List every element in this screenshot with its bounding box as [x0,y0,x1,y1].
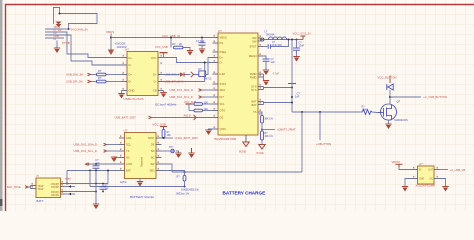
port bracket [191,72,194,77]
svg-text:30K 1%: 30K 1% [264,117,273,120]
ground after TP [176,151,179,153]
svg-text:SW: SW [150,162,155,166]
junction [201,37,203,39]
battery connector J2 body [36,178,61,198]
wire pin4 left [45,37,64,39]
wire to label [262,129,275,131]
capacitor C5 branch [296,40,298,49]
svg-text:5VCONN_IN: 5VCONN_IN [71,27,88,31]
wire gnd stub [56,41,58,48]
ground [442,186,448,192]
port [199,96,202,99]
svg-text:TR1P: TR1P [38,186,44,188]
ground [187,50,193,56]
wire BAT row [67,170,119,172]
wire PACK- [64,191,96,193]
U1 pin names [129,56,135,93]
bottom bus wire [172,171,302,173]
svg-text:SYS: SYS [251,88,257,92]
svg-text:PGND: PGND [257,152,264,155]
vertical bus [291,40,293,113]
wire SW to inductor [261,39,303,41]
ruler notch [0,199,3,206]
wire TS gnd [114,157,119,159]
resistor R4 [194,103,203,106]
wire R10 to MINT [163,137,165,140]
svg-text:100K: 100K [362,109,368,112]
junction [291,39,293,41]
ground floater [191,148,193,153]
svg-text:VCC: VCC [151,56,157,60]
power stem [389,76,391,84]
wire pullup bus [188,105,190,111]
svg-text:D-: D- [129,80,132,84]
svg-text:BQ25601RTWR: BQ25601RTWR [215,137,237,141]
wire SCL [202,96,213,98]
wire BTST [264,46,268,48]
svg-text:J?: J? [36,174,39,178]
svg-text:CE: CE [220,116,224,120]
wire SE3 row to bus [162,171,185,173]
svg-text:PTXB: PTXB [62,41,70,45]
svg-text:NC: NC [151,156,155,160]
power bar [396,164,403,167]
svg-text:R?: R? [98,69,102,73]
svg-text:USBLC6-2SC6: USBLC6-2SC6 [124,97,145,101]
resistor R3 [174,46,184,49]
svg-text:USB_DX1_SDA_D: USB_DX1_SDA_D [74,143,98,147]
wire ILIM branch [170,38,172,48]
svg-text:1nF: 1nF [295,96,300,99]
svg-text:+batt: +batt [65,177,72,181]
svg-text:ILIM: ILIM [220,72,226,76]
wire riser x90 [89,172,91,187]
junction [260,39,262,41]
svg-text:STAT: STAT [220,82,227,86]
power bar VCC_SYS_IN [301,36,306,40]
svg-text:PACKN: PACKN [51,191,59,194]
ground [199,49,205,55]
junction [89,170,91,172]
resistor R7 label [264,132,273,138]
svg-text:SCL: SCL [126,143,132,147]
junction [389,96,391,98]
svg-text:VCC_BUTTON: VCC_BUTTON [378,76,397,80]
wire LOW row [89,163,120,165]
junction [107,170,109,172]
svg-text:I2C bus? 400kHz: I2C bus? 400kHz [155,102,177,106]
wire staircase D- [64,35,122,65]
ground [111,157,117,163]
capacitor C3 [268,44,270,48]
svg-text:OE: OE [151,143,155,147]
ground [293,56,299,62]
power bar [186,103,193,104]
svg-text:TR1P: TR1P [38,189,44,191]
wire C4 gnd [265,61,267,69]
junction [95,170,97,172]
svg-text:PACKP: PACKP [51,183,59,186]
svg-text:PG: PG [220,41,224,45]
resistor R6 [261,116,264,124]
ground under U2 pad [245,135,247,142]
wire R2 to U1 [107,81,122,83]
junction [291,96,293,98]
capacitor C5 label [299,41,305,47]
svg-text:GND: GND [129,89,135,93]
junction [291,87,293,89]
svg-text:PSEL: PSEL [220,50,227,54]
svg-text:USB_DP_JM: USB_DP_JM [66,80,83,84]
wire SYS join [263,87,265,90]
diode D3 [387,84,393,90]
svg-text:+5VCCB: +5VCCB [115,42,126,46]
J2 pin stubs right [61,184,65,195]
svg-text:SDA: SDA [126,136,132,140]
wire R7 gnd [261,140,263,145]
svg-text:QON: QON [220,127,226,131]
junction [95,191,97,193]
junction [204,62,206,64]
svg-text:OTG: OTG [220,109,226,113]
R8 value labels [176,189,199,196]
junction [102,183,104,185]
svg-text:U?: U? [218,29,222,33]
junction [296,39,298,41]
J2 pin stubs left [31,186,37,189]
wire SW row to bus [162,164,173,172]
svg-text:D+: D+ [153,73,157,77]
resistor R9 label [362,106,368,112]
junction [288,39,290,41]
wire SDA [107,144,120,146]
wire SCL [107,150,120,152]
svg-text:+C_USB_VB: +C_USB_VB [450,168,466,172]
svg-text:BGND: BGND [239,151,246,154]
svg-text:BTST: BTST [250,45,257,49]
svg-text:VBUS: VBUS [106,30,114,34]
ground [137,181,143,187]
resistor R8 [183,176,186,182]
wire MINT row [162,137,174,139]
svg-text:MINT: MINT [148,136,155,140]
svg-text:xCHG_BATT_DRV: xCHG_BATT_DRV [175,136,199,140]
charger IC U2 body [218,33,258,135]
junction [170,37,172,39]
wire SDA [202,89,213,91]
Q1 labels [394,100,408,122]
power bar [160,127,167,130]
wire to thermistor R8 [184,172,186,176]
wire SD testpoint [162,150,171,152]
svg-text:AxD.D: AxD.D [184,115,191,118]
port arrow left [84,163,88,166]
power chevron on connector top [56,22,62,28]
capacitor C4 label [271,58,276,64]
junction [102,191,104,193]
U3 pin names left [126,136,132,173]
svg-text:2K: 2K [179,42,182,46]
U2 pin stubs left [213,38,219,130]
svg-text:USB_DM_JM: USB_DM_JM [66,73,84,77]
capacitor C8 label [105,184,110,190]
svg-text:BATTERY CHARGE: BATTERY CHARGE [223,191,266,196]
junction [59,13,61,15]
svg-text:USB_DX1_SCL_D: USB_DX1_SCL_D [170,95,193,99]
wire C5 gnd [296,50,298,56]
svg-text:NC: NC [126,156,130,160]
wire J2 left [28,186,31,189]
svg-text:BATTERY Monitor: BATTERY Monitor [130,195,154,199]
capacitor C2 [201,38,203,43]
wire to R [91,74,97,76]
wire SW join [263,38,265,41]
wire QON gnd [209,128,213,131]
wire R9 to gate [372,111,377,114]
wire [203,110,213,112]
transistor Q1 [377,104,397,120]
resistor R3 label [172,42,182,46]
ground [263,80,269,86]
wire DP row [164,81,205,83]
svg-text:OUT: OUT [428,170,433,172]
wire loop from connector shield [54,8,60,25]
arrow mark [69,193,72,196]
svg-text:REGN: REGN [249,54,257,58]
svg-text:PACKP: PACKP [51,186,59,189]
capacitor C7 [95,164,97,171]
svg-text:+CBATT_PBAT: +CBATT_PBAT [277,128,297,132]
ground [402,186,408,192]
svg-text:+CBUTTON: +CBUTTON [316,142,331,146]
wire PACK+ [64,183,108,185]
svg-text:1uF: 1uF [105,188,110,191]
svg-text:VBUS?: VBUS? [392,160,401,164]
resistor R10 label [167,131,172,137]
svg-text:CB: CB [153,89,157,93]
capacitor C4 [263,59,270,61]
wire R1 to U1 [107,74,122,76]
wire U1 GND [121,91,123,94]
wire batt riser left [66,171,68,184]
U2 pin stubs right [258,38,264,112]
port [149,116,152,119]
junction [291,102,293,104]
wire to label [390,96,421,98]
wire PMID join [263,74,265,80]
svg-text:NC: NC [430,179,434,181]
junction [95,183,97,185]
wire VBUS main [111,37,213,39]
wire batt riser mid [107,171,109,184]
wire U3 gnd [139,179,141,182]
svg-text:+C_USB_BUTTON: +C_USB_BUTTON [423,95,447,99]
svg-text:U?: U? [125,48,129,52]
U1 pin stubs left [122,58,128,91]
svg-text:Q?: Q? [397,100,401,104]
U2 pin names right [249,36,257,114]
svg-text:LOW: LOW [126,162,132,166]
svg-text:D+: D+ [220,56,224,60]
svg-text:BAT: BAT [126,169,131,173]
ground [54,48,60,54]
wire from R3 [184,48,191,51]
svg-text:U?: U? [124,129,128,133]
svg-text:VCC_SYS_IN: VCC_SYS_IN [293,32,311,36]
junction [184,171,186,173]
capacitor C8 [100,187,107,189]
svg-text:IN: IN [419,170,422,172]
svg-text:SD: SD [151,149,155,153]
power arrow down [108,50,115,56]
U4 pin stubs [412,170,440,179]
battery monitor IC U3 body [125,133,157,179]
sheet gray margin strip [0,0,3,211]
svg-text:BAT_TRxE: BAT_TRxE [7,185,21,189]
svg-text:TP?: TP? [169,146,174,149]
port [104,150,107,153]
svg-text:VCC_SUB: VCC_SUB [153,123,166,127]
U3 pin stubs left [119,138,125,171]
capacitor C1 label [115,42,127,50]
diode glyph [180,72,185,76]
wire riser to D- wire [204,63,206,82]
svg-text:U?: U? [419,162,423,166]
junction [301,111,303,113]
LDO U4 body [418,166,435,184]
wire U4 nc right [440,179,446,187]
svg-text:1uF: 1uF [271,61,276,64]
svg-text:GND: GND [419,179,424,181]
D2 labels [199,68,213,81]
resistor R10 [162,130,165,138]
wire CBUTTON stub [319,112,321,140]
svg-text:10uF: 10uF [299,45,305,48]
junction [261,129,263,131]
port [104,143,107,146]
svg-text:PMID: PMID [250,75,257,79]
wire pin2 left [45,31,64,33]
ESD protection D2 body [199,71,206,77]
wire VCC step to U2 [164,58,213,63]
svg-text:D+: D+ [129,73,133,77]
ground battery [93,204,99,210]
svg-text:VCC_USB: VCC_USB [155,45,168,49]
wire U1 VCC up [163,53,165,58]
wire to R2 [91,81,97,83]
ground [118,93,124,99]
port [88,80,91,83]
svg-text:R?: R? [172,42,176,46]
wire pin1 left [45,28,64,30]
svg-text:TS: TS [253,110,257,114]
wire DM row [164,74,199,76]
svg-text:USB_DX1_SDA_D: USB_DX1_SDA_D [170,88,194,92]
svg-text:SI2302CDS: SI2302CDS [394,118,408,122]
svg-text:VBUS: VBUS [220,36,228,40]
wire [189,110,194,112]
svg-text:1uF: 1uF [96,162,101,165]
wire mid [261,123,263,131]
wire to FET drain [389,90,391,105]
resistor R1 [97,73,107,76]
svg-text:Reserved: Reserved [141,156,144,167]
wire bottom link [90,186,185,188]
wire to ground battery [95,171,97,204]
junction [95,163,97,165]
wire staircase D+ [64,32,122,58]
wire BAT to gate [292,111,363,113]
port [25,186,28,189]
U1 pin stubs right [158,58,164,91]
arrow mark [69,185,72,188]
wire CONN_IN stub [64,28,69,30]
junction [263,39,265,41]
port [199,89,202,92]
connector J1 pin labels [54,26,62,41]
svg-text:2R2/4A: 2R2/4A [266,33,275,36]
svg-text:10K 1%: 10K 1% [264,135,273,138]
ground U1 CB [163,91,165,93]
port [88,73,91,76]
svg-text:INT: INT [220,95,225,99]
svg-text:D-: D- [154,80,157,84]
wire riser to U2 D+ [206,58,213,75]
svg-text:10K: 10K [167,134,172,137]
svg-text:BATT: BATT [37,199,44,203]
ground [385,124,391,130]
svg-text:SDA: SDA [220,88,226,92]
svg-text:XC6206P332MR: XC6206P332MR [416,183,436,187]
U3 pin names right [148,136,155,173]
wire PACK+ 2 [64,186,75,188]
power bar on SYS [288,83,296,85]
U3 pin stubs right [156,138,162,171]
wire REGN [264,56,267,59]
U4 pin names [419,170,424,181]
svg-text:D-: D- [129,63,132,67]
junction [66,183,68,185]
wire BAT join [263,102,265,105]
TS resistor chain wire [258,112,262,116]
svg-text:ID: ID [54,38,57,41]
wire VIN to U4 [399,167,412,170]
junction [184,186,186,188]
svg-text:0603cm 1%: 0603cm 1% [176,193,190,196]
inductor L1 [269,37,287,40]
svg-text:SW: SW [252,39,257,43]
gate resistor R9 zigzag [363,110,373,115]
wire BATT_DET [152,117,213,119]
ground [263,70,269,76]
wire [189,103,194,105]
svg-text:D-: D- [220,61,223,65]
capacitor C7 label [96,159,101,165]
op IC U1 USB switch body [127,52,158,96]
svg-text:10K(B3435) 1%: 10K(B3435) 1% [181,189,199,192]
wire PACK- 2 [64,193,75,195]
svg-text:AgTim: AgTim [120,181,127,184]
svg-text:USB_BATT_DET: USB_BATT_DET [115,116,137,120]
resistor R2 [97,80,107,83]
resistor R5 [194,109,203,112]
resistor R7 [261,131,264,140]
wire BAT [264,102,293,104]
wire [203,103,213,105]
svg-text:R?: R? [98,76,102,80]
wire pin3 left [45,34,64,36]
svg-text:C? 1uF: C? 1uF [196,39,205,43]
